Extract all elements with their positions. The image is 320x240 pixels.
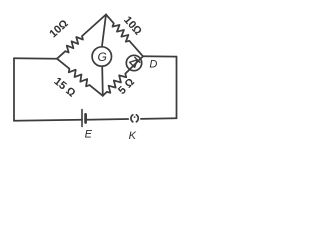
svg-text:D: D [149, 58, 157, 70]
wire bottom-right segment key to right rail [141, 117, 177, 120]
resistor 10Ω top-left arm [57, 15, 106, 59]
wire from galvanometer down to bottom node [101, 66, 104, 96]
svg-text:E: E [85, 129, 93, 141]
resistor 10Ω top-right arm [106, 15, 143, 57]
diode D triangle and cathode bar [130, 57, 140, 67]
wire left horizontal from left node to left rail [14, 57, 57, 59]
svg-text:K: K [129, 130, 137, 142]
wire bottom-middle segment battery to key [86, 118, 129, 121]
svg-text:G: G [98, 50, 107, 64]
galvanometer G circle [92, 47, 111, 66]
wire right vertical rail [176, 57, 178, 119]
wire left vertical rail [13, 58, 15, 121]
battery E [82, 110, 86, 127]
resistor 5Ω bottom-right arm (through diode D) [103, 56, 143, 96]
key K (plug key) [131, 115, 138, 122]
wire from top node down to galvanometer [102, 15, 106, 47]
wire bottom-left segment to battery [14, 120, 82, 121]
resistor 15Ω bottom-left arm [57, 59, 103, 96]
diode D circle [126, 55, 141, 70]
wire right horizontal from right rail to right node [143, 55, 177, 57]
